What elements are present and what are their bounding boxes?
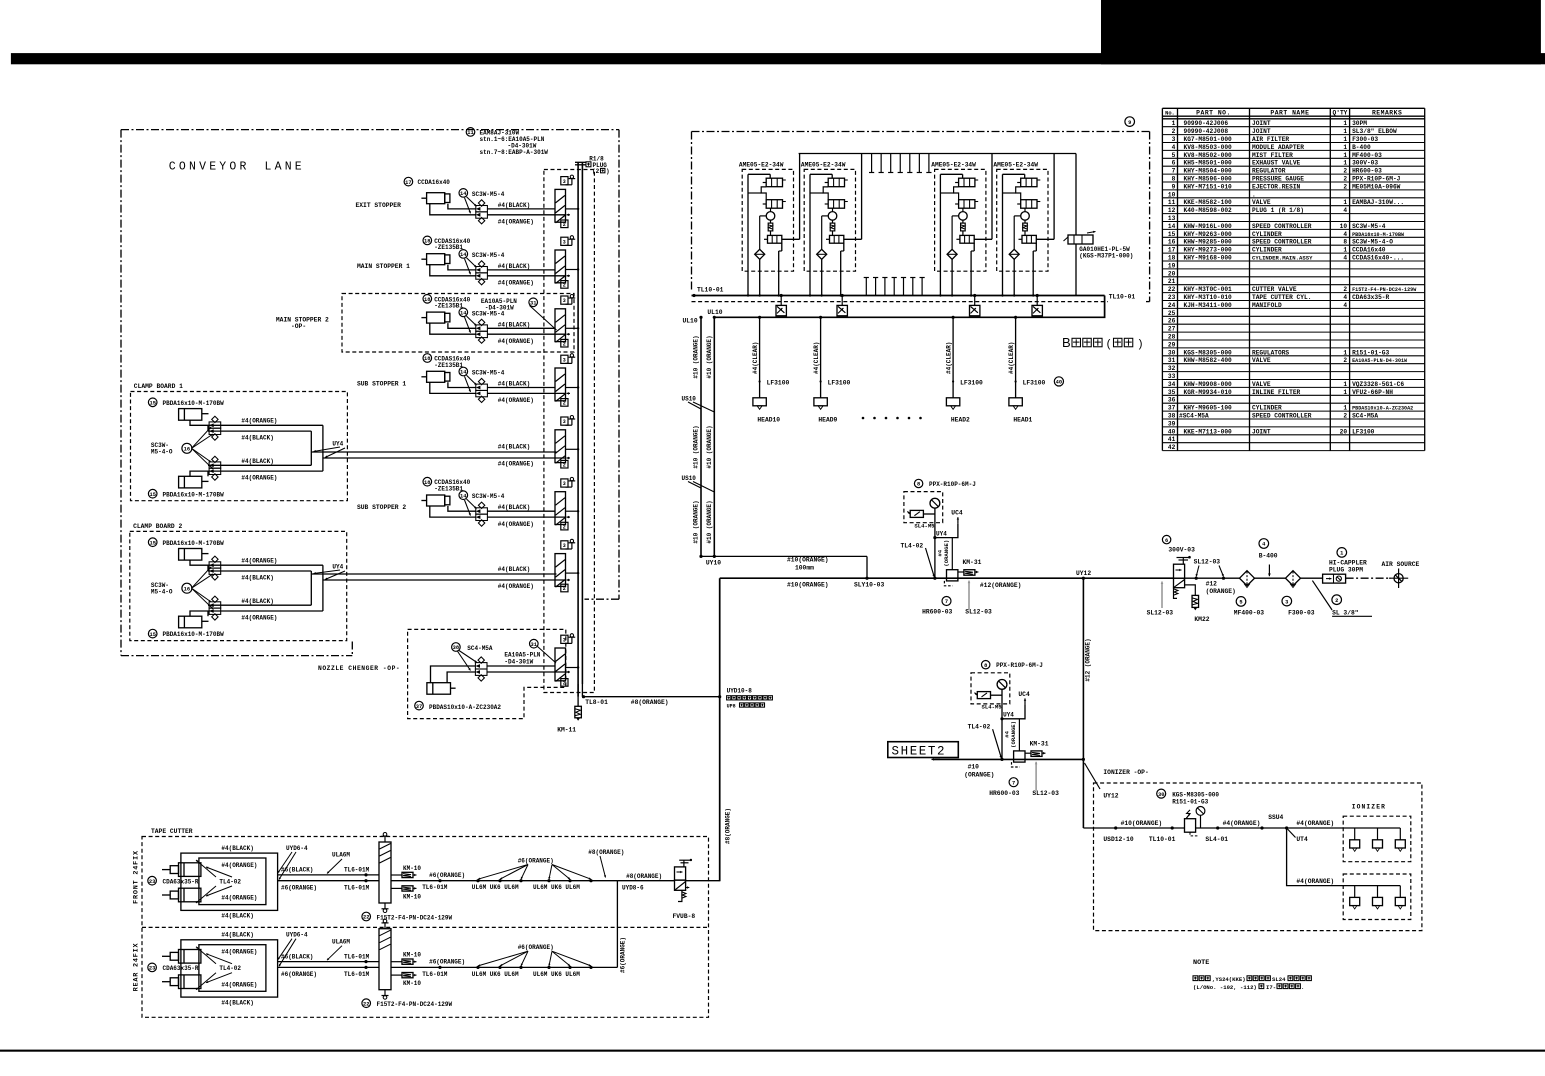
svg-text:CCDAS16x40-...: CCDAS16x40-... — [1352, 255, 1404, 262]
svg-text:F15T2-F4-PN-DC24-129W: F15T2-F4-PN-DC24-129W — [377, 1001, 453, 1008]
wire #4(ORANGE) upper — [190, 420, 323, 425]
joint 2 SL 3/8 elbow with leader — [1332, 595, 1342, 605]
svg-text:B-400: B-400 — [1352, 144, 1371, 151]
svg-text:SL4-M5: SL4-M5 — [982, 704, 1003, 711]
svg-text:KV8-M8502-000: KV8-M8502-000 — [1184, 152, 1233, 159]
svg-text:UL10: UL10 — [707, 309, 722, 316]
svg-text:1: 1 — [1343, 247, 1347, 254]
svg-text:#4(BLACK): #4(BLACK) — [221, 932, 253, 939]
wires to manifold (REAR) — [278, 961, 379, 963]
svg-text:NOTE: NOTE — [1193, 959, 1209, 967]
svg-text:EXHAUST VALVE: EXHAUST VALVE — [1252, 160, 1301, 167]
svg-text:PLUG 1 (R 1/8): PLUG 1 (R 1/8) — [1252, 207, 1304, 214]
speed controllers 14 SC3W-M5-4 for SUB STOPPER 1 — [476, 384, 488, 390]
svg-text:#4(ORANGE): #4(ORANGE) — [241, 615, 277, 622]
svg-text:33: 33 — [1168, 373, 1176, 380]
svg-text:KHY-M3T0C-001: KHY-M3T0C-001 — [1184, 286, 1233, 293]
svg-text:LF3100: LF3100 — [1352, 428, 1375, 435]
svg-text:18: 18 — [424, 356, 430, 362]
svg-text:#4(BLACK): #4(BLACK) — [498, 444, 530, 451]
svg-text:SL12-03: SL12-03 — [1194, 559, 1221, 566]
svg-text:#4(ORANGE): #4(ORANGE) — [241, 475, 277, 482]
svg-text:#4(ORANGE): #4(ORANGE) — [498, 280, 534, 287]
svg-text:#4(ORANGE): #4(ORANGE) — [221, 895, 257, 902]
wire nozzle valve to bus — [487, 665, 555, 667]
svg-text:6: 6 — [1165, 538, 1168, 544]
svg-text:-ZE135B1: -ZE135B1 — [434, 362, 463, 369]
svg-text:KJH-M3411-000: KJH-M3411-000 — [1184, 302, 1233, 309]
svg-text:TL6-01M: TL6-01M — [422, 971, 448, 978]
svg-text:9: 9 — [1172, 183, 1176, 190]
main valve (bottom) of group 3 — [960, 235, 974, 243]
svg-text:14: 14 — [460, 493, 467, 499]
svg-text:#4(ORANGE): #4(ORANGE) — [498, 397, 534, 404]
svg-text:#SC4-M5A: #SC4-M5A — [1179, 413, 1209, 420]
pilot valve (mid) of group 2 — [828, 200, 844, 209]
cylinder group: — [427, 312, 445, 323]
manifold valve station 4 (hatched 3-port valve) — [555, 368, 566, 401]
svg-text:UY12: UY12 — [1103, 793, 1118, 800]
tape cutter cylinders 23 CDA63x35-R (FRONT) — [148, 876, 157, 885]
svg-text:,YS24(KKE): ,YS24(KKE) — [1212, 976, 1246, 983]
wire #4(BLACK) SUB STOPPER 1 to valve — [487, 387, 555, 389]
wire #4(BLACK) SUB STOPPER 2 to valve — [487, 510, 555, 512]
svg-text:AME05-E2-34W: AME05-E2-34W — [993, 161, 1038, 168]
svg-text:#10 (ORANGE): #10 (ORANGE) — [693, 335, 700, 378]
svg-text:PART NAME: PART NAME — [1270, 110, 1309, 117]
circled 16 SC3W-M5-4-O callout — [182, 583, 192, 593]
svg-text:7: 7 — [1012, 780, 1015, 786]
svg-text:#4(ORANGE): #4(ORANGE) — [498, 583, 534, 590]
drop pipe #4(CLEAR) to HEAD9 — [820, 317, 822, 398]
svg-text:-D4-301W: -D4-301W — [485, 305, 514, 312]
svg-text:8: 8 — [1343, 239, 1347, 246]
air source symbol — [1394, 574, 1403, 583]
suction head HEAD10 — [753, 398, 766, 406]
speed controllers 14 SC3W-M5-4 for MAIN STOPPER 1 — [476, 267, 488, 273]
wire loop rectangles (REAR) — [181, 940, 278, 997]
svg-text:US10: US10 — [682, 475, 697, 482]
svg-text:#4(ORANGE): #4(ORANGE) — [221, 949, 257, 956]
svg-text:(ORANGE): (ORANGE) — [1206, 588, 1236, 595]
svg-text:38: 38 — [1168, 413, 1176, 420]
main valve (bottom) of group 2 — [830, 235, 844, 243]
svg-text:27: 27 — [1168, 326, 1176, 333]
svg-text:HR600-03: HR600-03 — [989, 790, 1019, 797]
ionizer nozzle 2.1 — [1354, 886, 1356, 898]
svg-text:REAR 24FIX: REAR 24FIX — [133, 942, 141, 991]
svg-text:2: 2 — [563, 586, 566, 592]
main stopper 2 optional dashed box — [342, 294, 574, 353]
svg-text:#4(BLACK): #4(BLACK) — [241, 598, 273, 605]
wire #4(ORANGE) EXIT STOPPER to valve — [487, 214, 566, 216]
check valve diamond of group 3 — [947, 249, 957, 259]
ionizer feed line — [1083, 827, 1184, 829]
cylinder 15 PBDA16x10-M-170BW (lower) — [179, 476, 202, 488]
ionizer bar 1 dashed enclosure — [1343, 816, 1411, 862]
svg-text:#6(BLACK): #6(BLACK) — [281, 953, 313, 960]
svg-text:KM-10: KM-10 — [403, 893, 421, 900]
line from regulator to ionizers — [1196, 827, 1287, 829]
svg-text:#4(BLACK): #4(BLACK) — [221, 913, 253, 920]
cylinder 15 PBDA16x10-M-170BW (upper) — [148, 538, 157, 547]
svg-text:2: 2 — [563, 524, 566, 530]
svg-text:KHW-M9285-000: KHW-M9285-000 — [1184, 239, 1233, 246]
svg-text:CYLINDER: CYLINDER — [1252, 247, 1282, 254]
CLAMP BOARD 2 dashed enclosure — [130, 531, 347, 640]
svg-text:VALVE: VALVE — [1252, 357, 1271, 364]
svg-text:3: 3 — [563, 298, 566, 304]
svg-text:#4(CLEAR): #4(CLEAR) — [946, 342, 953, 374]
svg-text:#6(ORANGE): #6(ORANGE) — [518, 944, 554, 951]
svg-text:HR600-03: HR600-03 — [922, 609, 952, 616]
svg-text:stn.7~8:EABP-A-301W: stn.7~8:EABP-A-301W — [480, 149, 549, 156]
svg-text:TL10-01: TL10-01 — [1149, 836, 1176, 843]
svg-text:M5-4-O: M5-4-O — [151, 588, 173, 595]
svg-text:SC3W-M5-4: SC3W-M5-4 — [1352, 223, 1386, 230]
svg-text:1: 1 — [1343, 389, 1347, 396]
svg-text:SPEED CONTROLLER: SPEED CONTROLLER — [1252, 239, 1312, 246]
svg-text:MANIFOLD: MANIFOLD — [1252, 302, 1282, 309]
svg-text:CCDA16x40: CCDA16x40 — [418, 179, 451, 186]
svg-text:2: 2 — [1343, 176, 1347, 183]
svg-text:#8(ORANGE): #8(ORANGE) — [725, 808, 732, 844]
svg-text:#4(ORANGE): #4(ORANGE) — [1223, 820, 1261, 827]
svg-text:SC4-M5A: SC4-M5A — [467, 645, 493, 652]
svg-text:KKE-M8582-100: KKE-M8582-100 — [1184, 199, 1233, 206]
regulator symbol R151-01-G3 — [1185, 819, 1196, 833]
svg-text:SL4-01: SL4-01 — [1205, 836, 1228, 843]
ionizer optional dashed enclosure — [1094, 783, 1422, 931]
svg-text:KG7-M8501-000: KG7-M8501-000 — [1184, 136, 1233, 143]
internal piping of group 4 — [1002, 174, 1004, 295]
svg-text:TL4-02: TL4-02 — [901, 542, 924, 549]
svg-text:1: 1 — [1172, 120, 1176, 127]
joint 1 HI-CAPPLER PLUG 30PM — [1301, 577, 1323, 579]
svg-text:15: 15 — [149, 401, 155, 407]
wire #4(BLACK) upper — [208, 570, 311, 572]
svg-text:SC3W-M5-4-O: SC3W-M5-4-O — [1352, 239, 1393, 246]
svg-text:8: 8 — [1172, 176, 1176, 183]
node TL10-01 supply bus — [692, 295, 1105, 297]
speed controllers 16 SC3W-M5-4-O (upper pair) — [209, 562, 221, 568]
svg-text:8: 8 — [917, 482, 920, 488]
manifold valve station 3 (hatched 3-port valve) — [555, 309, 566, 342]
wire #4(ORANGE) SUB STOPPER 1 to valve — [487, 392, 566, 394]
svg-text:2: 2 — [1343, 183, 1347, 190]
svg-text:KGS-M8305-000: KGS-M8305-000 — [1184, 349, 1233, 356]
svg-text:4: 4 — [1343, 255, 1347, 262]
svg-text:32: 32 — [1168, 365, 1176, 372]
svg-text:B-400: B-400 — [1259, 553, 1278, 560]
valve group AME05-E2-34W #1 dashed enclosure — [742, 169, 793, 271]
svg-text:#4(BLACK): #4(BLACK) — [498, 263, 530, 270]
svg-text:23: 23 — [149, 966, 155, 972]
output line #6(ORANGE) with UL6M/UK6 joints (FRONT) — [391, 880, 617, 882]
svg-text:1: 1 — [1343, 144, 1347, 151]
output line #6(ORANGE) with UL6M/UK6 joints (REAR) — [391, 966, 617, 968]
check valve diamond of group 2 — [817, 249, 827, 259]
wire #4(ORANGE) lower — [190, 611, 323, 616]
svg-text:.: . — [1301, 984, 1304, 991]
joint 40 LF3100 at HEAD9 — [820, 380, 822, 382]
cylinder callout 18 CCDAS16x40-ZE135B1 — [423, 236, 432, 245]
svg-text:22: 22 — [1168, 286, 1176, 293]
svg-text:TL8-01: TL8-01 — [585, 699, 608, 706]
svg-text:#4(BLACK): #4(BLACK) — [498, 381, 530, 388]
svg-text:HEAD2: HEAD2 — [951, 417, 970, 424]
svg-text:41: 41 — [1168, 436, 1176, 443]
svg-text:SC4-M5A: SC4-M5A — [1352, 413, 1378, 420]
svg-text:1: 1 — [1343, 136, 1347, 143]
svg-text:FRONT 24FIX: FRONT 24FIX — [133, 850, 141, 904]
manifold valve station 5 (hatched 3-port valve) — [555, 430, 566, 463]
svg-text:PPX-R10P-6M-J: PPX-R10P-6M-J — [1352, 176, 1401, 183]
svg-text:16: 16 — [184, 447, 190, 453]
svg-text:UYD6-4: UYD6-4 — [286, 845, 308, 852]
cylinder callout 18 CCDAS16x40-ZE135B1 — [423, 354, 432, 363]
svg-text:17: 17 — [405, 180, 411, 186]
mist filter 5 MF400-03 — [1185, 577, 1240, 579]
svg-text:#6(ORANGE): #6(ORANGE) — [281, 971, 317, 978]
svg-text:AIR SOURCE: AIR SOURCE — [1382, 561, 1420, 568]
svg-text:1: 1 — [1343, 152, 1347, 159]
bus corner to UL10 return — [714, 296, 1104, 318]
svg-text:TL6-01M: TL6-01M — [344, 884, 370, 891]
svg-text:4: 4 — [1343, 231, 1347, 238]
svg-text:PBDA16x10-M-170BW: PBDA16x10-M-170BW — [163, 400, 225, 407]
svg-text:26: 26 — [1168, 318, 1176, 325]
svg-text:TL6-01M: TL6-01M — [422, 884, 448, 891]
svg-text:20: 20 — [1168, 270, 1176, 277]
svg-text:KGR-M9934-010: KGR-M9934-010 — [1184, 389, 1233, 396]
svg-text:#8(ORANGE): #8(ORANGE) — [626, 873, 662, 880]
ionizer nozzle 1.2 — [1377, 828, 1379, 840]
svg-text:90990-42J006: 90990-42J006 — [1184, 120, 1229, 127]
svg-text:14: 14 — [460, 311, 467, 317]
svg-text:#4(ORANGE): #4(ORANGE) — [1296, 878, 1334, 885]
air filter 3 F300-03 — [1286, 571, 1301, 586]
svg-text:35: 35 — [1168, 389, 1176, 396]
svg-text:2: 2 — [1172, 128, 1176, 135]
svg-text:1: 1 — [1343, 160, 1347, 167]
svg-text:KM-31: KM-31 — [963, 559, 982, 566]
CLAMP BOARD 1 dashed enclosure — [131, 392, 348, 501]
ejector nozzle circle of group 1 — [766, 212, 775, 221]
svg-text:#6(ORANGE): #6(ORANGE) — [429, 872, 465, 879]
wire #4(BLACK) upper — [208, 430, 311, 432]
svg-text:#4(CLEAR): #4(CLEAR) — [1008, 342, 1015, 374]
svg-text:1: 1 — [1343, 405, 1347, 412]
svg-text:SC3W-M5-4: SC3W-M5-4 — [472, 191, 505, 198]
svg-text:ULA6M: ULA6M — [332, 938, 350, 945]
ellipsis dots between heads — [862, 417, 865, 420]
svg-text:22: 22 — [363, 915, 369, 921]
wire #4(BLACK) to valve — [487, 327, 555, 329]
svg-text:): ) — [1137, 339, 1144, 351]
svg-text:CUTTER VALVE: CUTTER VALVE — [1252, 286, 1297, 293]
circled 7 HR600-03 regulator callout (upper) — [942, 597, 951, 606]
cutter valve manifold 24 (FRONT) — [379, 842, 391, 903]
svg-text:UC4: UC4 — [951, 510, 963, 517]
svg-text:38: 38 — [453, 645, 459, 651]
svg-text:PBDA16x10-M-170BW: PBDA16x10-M-170BW — [163, 631, 225, 638]
svg-text:VALVE: VALVE — [1252, 199, 1271, 206]
svg-text:4: 4 — [1343, 207, 1347, 214]
svg-text:(L/ONo. -102, -112): (L/ONo. -102, -112) — [1193, 984, 1257, 991]
svg-text:25: 25 — [1168, 310, 1176, 317]
svg-text:2: 2 — [1343, 413, 1347, 420]
svg-text:JOINT: JOINT — [1252, 428, 1271, 435]
svg-text:42: 42 — [1168, 444, 1176, 451]
tape cutter dashed enclosure — [142, 837, 709, 1018]
svg-text:EA10A5-PLN-D4-301W: EA10A5-PLN-D4-301W — [1352, 358, 1408, 364]
svg-text:#4(ORANGE): #4(ORANGE) — [241, 557, 277, 564]
svg-text:18: 18 — [424, 480, 430, 486]
svg-text:KM-31: KM-31 — [1030, 740, 1049, 747]
pressure gauge group 8 PPX-R10P-6M-J (upper) dashed box — [904, 492, 943, 523]
svg-text:3: 3 — [563, 357, 566, 363]
svg-text:SPEED CONTROLLER: SPEED CONTROLLER — [1252, 223, 1312, 230]
svg-text:UY12: UY12 — [1076, 570, 1091, 577]
svg-text:4: 4 — [1343, 294, 1347, 301]
B-head enclosure (dash-dot box) — [692, 131, 1150, 133]
svg-text:#6(ORANGE): #6(ORANGE) — [429, 959, 465, 966]
joint 40 LF3100 at HEAD2 — [952, 380, 954, 382]
svg-text:MODULE ADAPTER: MODULE ADAPTER — [1252, 144, 1304, 151]
svg-text:2: 2 — [1343, 168, 1347, 175]
svg-text:15: 15 — [1168, 231, 1176, 238]
svg-text:#8(ORANGE): #8(ORANGE) — [588, 849, 624, 856]
svg-text:LANE: LANE — [265, 161, 305, 174]
svg-text:15: 15 — [149, 540, 155, 546]
svg-text:36: 36 — [1168, 397, 1176, 404]
svg-text:2: 2 — [563, 462, 566, 468]
svg-text:CLAMP BOARD 2: CLAMP BOARD 2 — [133, 523, 182, 530]
svg-text:19: 19 — [1168, 262, 1176, 269]
suction head HEAD2 — [946, 398, 959, 406]
svg-text:#10: #10 — [968, 764, 980, 771]
svg-text:4: 4 — [1172, 144, 1176, 151]
title block: black corner rectangle — [1101, 0, 1541, 64]
svg-text:24: 24 — [1168, 302, 1176, 309]
svg-text:3: 3 — [563, 179, 566, 185]
lower distribution line to SHEET2 — [935, 758, 1083, 760]
internal piping of group 3 — [939, 174, 941, 295]
long wire #4(ORANGE) to manifold valve — [323, 457, 566, 459]
pilot valve (mid) of group 1 — [766, 200, 782, 209]
wires nozzle changer cylinder to speed controllers — [431, 666, 476, 683]
svg-text:UYD6-4: UYD6-4 — [286, 932, 308, 939]
pipe TL8-01 #8(ORANGE) from manifold bus — [577, 684, 579, 697]
pipe #10(ORANGE) column A — [700, 317, 702, 556]
svg-text:30: 30 — [1158, 792, 1164, 798]
svg-text:UC4: UC4 — [1018, 691, 1030, 698]
main valve (bottom) of group 1 — [768, 235, 782, 243]
svg-text:7: 7 — [945, 599, 948, 605]
svg-text:#12 (ORANGE): #12 (ORANGE) — [1085, 638, 1092, 681]
tape cutter front/rear divider — [142, 926, 709, 928]
svg-text:#4(ORANGE): #4(ORANGE) — [221, 981, 257, 988]
svg-text:UL6M UK6 UL6M: UL6M UK6 UL6M — [533, 971, 580, 978]
wire #4(BLACK) lower — [208, 464, 311, 466]
speed controllers 16 SC3W-M5-4-O (upper pair) — [209, 422, 221, 428]
svg-text:PBDA16x10-M-170BW: PBDA16x10-M-170BW — [163, 491, 225, 498]
svg-text:2: 2 — [1335, 598, 1338, 604]
svg-text:TL6-01M: TL6-01M — [344, 867, 370, 874]
cylinder 15 PBDA16x10-M-170BW (lower) — [179, 616, 202, 628]
pilot valve (top) of group 3 — [959, 178, 975, 187]
svg-text:2: 2 — [1343, 357, 1347, 364]
svg-text:F300-03: F300-03 — [1288, 610, 1315, 617]
svg-text:18: 18 — [424, 297, 430, 303]
main valve (bottom) of group 4 — [1022, 235, 1036, 243]
drop pipe #4(CLEAR) to HEAD2 — [952, 317, 954, 398]
ionizer bar 2 internal header — [1343, 885, 1400, 887]
svg-text:UL10: UL10 — [683, 318, 698, 325]
svg-text:1: 1 — [1343, 128, 1347, 135]
svg-text:11: 11 — [467, 130, 473, 136]
svg-text:UL6M UK6 UL6M: UL6M UK6 UL6M — [472, 884, 519, 891]
svg-text:SSU4: SSU4 — [1268, 814, 1283, 821]
svg-text:-ZE135B1: -ZE135B1 — [434, 303, 463, 310]
manifold valve station 7 (hatched 3-port valve) — [555, 554, 566, 587]
svg-text:PPX-R10P-6M-J: PPX-R10P-6M-J — [929, 481, 976, 488]
svg-text:REGULATOR: REGULATOR — [1252, 168, 1286, 175]
svg-text:7: 7 — [1172, 168, 1176, 175]
svg-text:NOZZLE CHENGER -OP-: NOZZLE CHENGER -OP- — [318, 665, 400, 672]
svg-text:#4(BLACK): #4(BLACK) — [221, 845, 253, 852]
svg-text:KV8-M8503-000: KV8-M8503-000 — [1184, 144, 1233, 151]
svg-text:20: 20 — [1340, 428, 1348, 435]
svg-text:4: 4 — [1343, 302, 1347, 309]
svg-text:14: 14 — [460, 191, 467, 197]
svg-text:10: 10 — [1340, 223, 1348, 230]
svg-text:EAMBAJ-310W...: EAMBAJ-310W... — [1352, 199, 1404, 206]
svg-text:12: 12 — [1168, 207, 1176, 214]
svg-text:VQZ3328-5G1-C6: VQZ3328-5G1-C6 — [1352, 381, 1404, 388]
svg-text:5: 5 — [1172, 152, 1176, 159]
svg-text:14: 14 — [460, 252, 467, 258]
cylinder group: SUB STOPPER 2 — [427, 495, 445, 506]
svg-text:KHW-M8582-400: KHW-M8582-400 — [1184, 357, 1233, 364]
svg-text:MIST FILTER: MIST FILTER — [1252, 152, 1293, 159]
svg-text:16: 16 — [1168, 239, 1176, 246]
svg-text:300V-03: 300V-03 — [1352, 160, 1378, 167]
svg-text:10: 10 — [1168, 191, 1176, 198]
suction head HEAD9 — [814, 398, 827, 406]
svg-text:HEAD1: HEAD1 — [1013, 417, 1032, 424]
check valve diamond of group 1 — [755, 249, 765, 259]
front feed line to FVUB-8 — [617, 880, 674, 882]
svg-text:#4(CLEAR): #4(CLEAR) — [752, 342, 759, 374]
svg-text:PBDA16x10-M-170BW: PBDA16x10-M-170BW — [1352, 232, 1405, 238]
joint fitting (valve square) above HEAD9 — [841, 296, 843, 306]
joint 40 LF3100 at HEAD1 — [1015, 380, 1017, 382]
svg-text:(: ( — [1106, 339, 1113, 351]
muffler KM-31 (upper) — [964, 570, 975, 576]
svg-text:TL6-01M: TL6-01M — [344, 953, 370, 960]
speed controllers 14 SC3W-M5-4 for — [476, 325, 488, 331]
svg-text:MF400-03: MF400-03 — [1352, 152, 1382, 159]
valve manifold column dashed enclosure — [544, 170, 595, 693]
svg-text:LF3100: LF3100 — [767, 379, 790, 386]
B-head enclosure bottom dashed line — [692, 301, 1109, 303]
riser pipe (upper) — [934, 508, 936, 578]
svg-text:CONVEYOR: CONVEYOR — [169, 161, 250, 174]
svg-text:#10(ORANGE): #10(ORANGE) — [1121, 820, 1163, 827]
bottom frame line — [0, 1050, 1545, 1052]
